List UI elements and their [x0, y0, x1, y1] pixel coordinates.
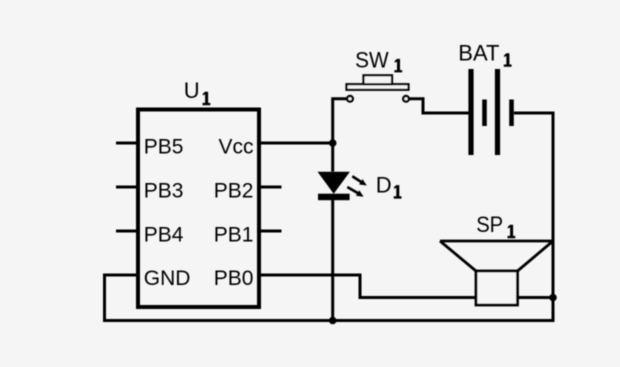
svg-text:U: U [184, 78, 200, 103]
svg-text:SP: SP [476, 212, 503, 237]
svg-text:SW: SW [355, 47, 389, 72]
svg-text:Vcc: Vcc [218, 135, 253, 158]
svg-text:D: D [376, 172, 392, 197]
svg-text:PB3: PB3 [144, 179, 184, 202]
svg-text:GND: GND [144, 267, 191, 290]
svg-text:BAT: BAT [458, 40, 499, 65]
svg-text:PB0: PB0 [214, 267, 254, 290]
svg-text:PB5: PB5 [144, 135, 184, 158]
svg-text:PB1: PB1 [214, 223, 254, 246]
svg-text:PB2: PB2 [214, 179, 254, 202]
svg-text:PB4: PB4 [144, 223, 184, 246]
